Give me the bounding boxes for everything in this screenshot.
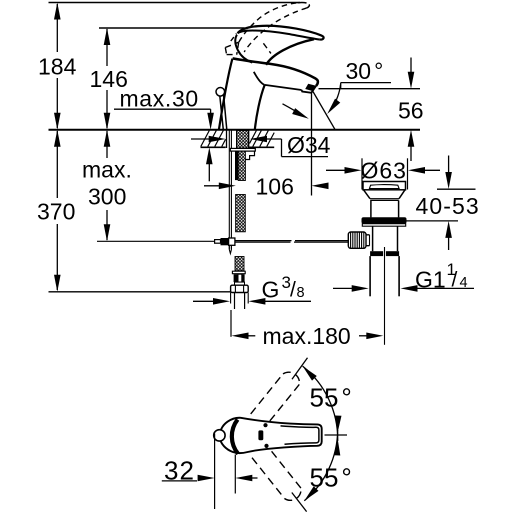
hose nut dark blocks: [234, 274, 238, 282]
svg-text:370: 370: [37, 199, 75, 225]
raised lever dashed top edge: [239, 3, 298, 42]
mounting washer: [230, 148, 255, 151]
svg-text:184: 184: [38, 54, 77, 80]
32 extension line left: [214, 434, 216, 510]
Ø34 hole dimension left arrow: [191, 138, 212, 140]
dimension 106 right arrow: [312, 183, 329, 190]
max.300 bottom reference line / pull rod line: [97, 240, 215, 242]
lever centerline stub: [325, 434, 348, 436]
spout top edge: [233, 58, 318, 86]
tailpipe walls: [369, 256, 371, 296]
braided hose middle segment: [236, 195, 246, 232]
raised lever dashed left end face: [225, 42, 238, 54]
svg-text:Ø34: Ø34: [287, 132, 331, 158]
max.30 up arrow to deck bottom: [208, 160, 210, 181]
vertical rod lower tip: [229, 245, 231, 253]
threaded stub: [234, 293, 236, 310]
raised lever dashed tip: [298, 3, 310, 8]
raised lever dashed back edge marks: [231, 34, 237, 42]
55° arc lower: [304, 430, 337, 501]
G1 1/4 dimension arrows: [333, 287, 354, 289]
aerator outline: [302, 86, 317, 93]
svg-text:300: 300: [88, 184, 126, 210]
lever blade top edge: [238, 26, 324, 40]
deck cross-section bottom line right: [249, 146, 274, 148]
30 degree underline and connector: [341, 82, 391, 84]
grip dot upper: [263, 423, 267, 427]
faucet body left edge: [219, 59, 233, 130]
dashed grip rotated down 55° edge 1: [252, 458, 285, 499]
knurled adjuster knob: [348, 232, 366, 248]
svg-text:8: 8: [297, 285, 305, 301]
55° arc upper: [303, 366, 338, 441]
max.30 down arrow to deck top: [210, 109, 212, 116]
svg-text:max.: max.: [82, 157, 132, 183]
threaded shank crosshatch: [237, 131, 249, 149]
deck cross-section bottom line left: [201, 146, 226, 148]
Ø63 extension lines: [361, 158, 363, 189]
Ø63 dimension arrows: [326, 169, 347, 171]
spout underside line: [265, 85, 302, 90]
svg-text:55°: 55°: [310, 463, 352, 493]
aerator dark slot: [305, 84, 316, 91]
lever blade underside: [238, 31, 320, 40]
top view pop-up knob: [214, 430, 225, 441]
pop-up rod knob: [216, 88, 225, 97]
30° arc arrow left: [283, 104, 303, 116]
deck hatching right block: [250, 131, 275, 147]
svg-text:30°: 30°: [346, 58, 384, 84]
grip dot lower: [264, 444, 268, 448]
lever neck sweep: [266, 39, 314, 65]
dashed grip rotated up 55° edge 1: [251, 374, 283, 414]
dark hose left bar: [235, 151, 238, 180]
svg-text:56: 56: [398, 98, 424, 124]
drain upper body: [370, 200, 372, 217]
40-53 top reference line: [437, 188, 476, 190]
mounting nut: [245, 151, 254, 159]
drain neck groove: [370, 198, 399, 200]
braided hose upper segment: [238, 151, 245, 180]
55° lower extension line: [292, 493, 307, 512]
30° indicator vertical line from aerator: [311, 93, 313, 196]
spout underside fillet: [254, 72, 265, 85]
top view outer outline: [220, 418, 322, 453]
Ø34 hole dimension right arrow: [250, 136, 267, 143]
40-53 bottom reference line: [405, 220, 458, 222]
drain lower body: [372, 226, 374, 251]
max.30 underline leader: [114, 108, 211, 110]
32 underline: [162, 480, 197, 482]
shank outer walls: [226, 131, 228, 149]
dashed grip down edge 2: [271, 450, 301, 488]
drain neck cone: [364, 190, 406, 199]
svg-text:55°: 55°: [310, 383, 352, 413]
hex nut: [231, 285, 249, 292]
faucet body right edge: [255, 85, 265, 130]
pop-up rod shaft: [220, 95, 227, 130]
horizontal pull rod to drain: [235, 240, 292, 242]
40-53 dimension arrows: [448, 156, 450, 175]
dimension 56 line: [410, 58, 412, 74]
svg-text:G1: G1: [415, 267, 446, 293]
svg-text:4: 4: [460, 275, 468, 291]
max.180 dimension: [232, 333, 249, 340]
G3/8 dimension arrows: [193, 300, 215, 302]
deck / counter top line: [49, 129, 421, 131]
spout outlet height reference line: [319, 88, 421, 90]
pull rod coupling white block: [229, 238, 235, 245]
30° slanted line: [312, 89, 336, 130]
32 extension line right: [234, 455, 236, 494]
pull rod coupling small screw: [215, 240, 221, 244]
dimension 106 left arrow: [204, 185, 221, 187]
pop-up vertical rod: [228, 131, 230, 249]
svg-text:106: 106: [256, 173, 294, 199]
dimension 370 line: [56, 131, 58, 198]
top reference line (raised lever max height): [49, 2, 301, 4]
svg-text:40-53: 40-53: [416, 193, 480, 219]
30° arc arrow right: [332, 85, 341, 109]
deck hatching left block: [201, 131, 226, 147]
lever rest-height reference line: [99, 27, 245, 29]
braided hose lower segment: [235, 257, 244, 271]
svg-text:G: G: [262, 277, 280, 303]
hose collar: [232, 271, 245, 274]
drain black seal ring: [362, 217, 407, 224]
G3/8 extension ticks: [230, 293, 232, 304]
pull rod coupling black block: [221, 238, 229, 245]
dimension max.300 line: [106, 131, 108, 158]
pop-up plug disc: [369, 185, 399, 189]
dashed grip up cap: [283, 372, 299, 384]
svg-text:/: /: [452, 269, 458, 292]
svg-text:max.180: max.180: [263, 323, 351, 349]
55° upper extension line: [292, 358, 308, 380]
grip mark bar: [258, 430, 263, 440]
dashed grip up edge 2: [269, 384, 299, 422]
pivot crescent: [232, 420, 238, 454]
ring under-band: [362, 224, 405, 227]
drain top cap: [363, 182, 406, 190]
32 right arrow: [235, 475, 252, 482]
drain lower black band: [370, 251, 383, 256]
Ø34 leader drop and underline: [281, 139, 283, 157]
32 left arrow: [198, 475, 215, 482]
svg-text:max.30: max.30: [120, 86, 199, 112]
raised lever dashed bottom edge: [244, 8, 307, 52]
max.180 left extension line: [230, 310, 232, 337]
drain centerline: [384, 247, 386, 345]
lever back edge: [235, 35, 252, 63]
svg-text:Ø63: Ø63: [361, 158, 407, 184]
dimension 146 line: [106, 29, 108, 66]
raised lever dashed neck: [263, 43, 271, 53]
370 bottom reference line: [49, 291, 231, 293]
dashed grip down cap: [285, 488, 302, 500]
hose neck: [235, 282, 245, 285]
knob neck: [366, 235, 370, 246]
top view cap chamfer line: [281, 426, 319, 444]
dimension 184 line: [56, 4, 58, 52]
svg-text:/: /: [290, 279, 296, 302]
